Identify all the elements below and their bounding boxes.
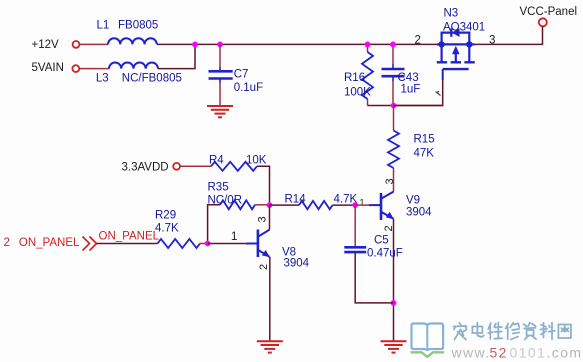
ground V8: [257, 341, 283, 352]
capacitor C5: [344, 247, 366, 252]
svg-text:47K: 47K: [414, 148, 435, 160]
wire 5VAIN to L3: [80, 68, 110, 70]
wire L3 up to rail: [158, 44, 195, 68]
label C43: [398, 72, 419, 84]
watermark url: [451, 344, 583, 360]
wire C43 bottom lead: [392, 81, 394, 106]
label R15: [414, 134, 435, 146]
pin 3 label: [489, 34, 495, 46]
label R16: [344, 72, 365, 84]
svg-text:R29: R29: [155, 209, 176, 221]
svg-text:3: 3: [384, 178, 396, 184]
svg-text:C5: C5: [374, 235, 389, 247]
transistor V8 (NPN 3904): [246, 230, 270, 258]
svg-text:L3: L3: [96, 72, 109, 84]
svg-text:V9: V9: [406, 195, 420, 207]
resistor R14: [299, 201, 333, 209]
wire R15 to V9 collector: [393, 168, 395, 192]
svg-text:3904: 3904: [406, 206, 432, 218]
wire top rail: [157, 43, 437, 45]
wire R15 top lead: [393, 106, 395, 131]
wire R16 bottom lead: [367, 99, 369, 106]
value NC/FB0805: [122, 72, 182, 84]
resistor R4: [211, 162, 257, 171]
resistor R16: [362, 52, 373, 99]
label R14: [285, 194, 307, 206]
wire C5 top lead: [354, 205, 356, 247]
connector chevron: [83, 237, 97, 251]
pin 2 label: [415, 34, 421, 46]
value 100K: [344, 87, 371, 99]
junction rail-L3: [192, 42, 198, 48]
value FB0805: [118, 20, 158, 32]
junction gate node: [391, 103, 397, 109]
watermark text 家电维修资料网: [454, 323, 571, 340]
svg-text:3.3AVDD: 3.3AVDD: [122, 161, 169, 173]
label R29: [155, 209, 176, 221]
svg-text:0101: 0101: [510, 344, 547, 360]
wire +12V to L1: [80, 43, 109, 45]
resistor R35: [220, 200, 255, 209]
net label 2 ON_PANEL: [4, 237, 81, 249]
wire C5 bottom lead: [355, 252, 393, 303]
terminal 3.3AVDD: [173, 163, 180, 170]
svg-text:3904: 3904: [284, 257, 310, 269]
wire junction to V8 base: [208, 243, 246, 245]
svg-text:L1: L1: [97, 20, 110, 32]
ground V9: [381, 341, 407, 352]
value NC/0R: [208, 194, 243, 206]
wire R35 right lead: [255, 204, 270, 206]
value 0.1uF: [234, 82, 263, 94]
net label 5VAIN: [32, 62, 64, 74]
value 47K: [414, 148, 435, 160]
junction R29/R35/V8: [205, 241, 211, 247]
value 0.47uF: [367, 248, 403, 260]
value 3904 V8: [284, 257, 310, 269]
svg-text:R16: R16: [344, 72, 365, 84]
svg-text:AO3401: AO3401: [443, 22, 485, 34]
value 4.7K: [334, 194, 358, 206]
pin 1 label V8: [231, 231, 237, 243]
wire C7 top lead: [219, 44, 221, 67]
junction R4/R35/V8: [267, 202, 273, 208]
label L3: [96, 72, 109, 84]
inductor L3: [109, 62, 158, 68]
junction rail-C7: [217, 42, 223, 48]
label L1: [97, 20, 110, 32]
svg-text:www.: www.: [451, 344, 491, 360]
wire gate lead: [394, 80, 443, 106]
svg-text:2: 2: [415, 34, 421, 46]
label N3: [444, 8, 459, 20]
svg-text:0.1uF: 0.1uF: [234, 82, 263, 94]
svg-text:4.7K: 4.7K: [155, 222, 179, 234]
svg-text:52: 52: [490, 344, 508, 360]
svg-text:R4: R4: [209, 155, 224, 167]
terminal VCC-Panel: [539, 18, 547, 26]
svg-text:+12V: +12V: [32, 39, 60, 51]
svg-text:.com: .com: [547, 344, 583, 360]
label C7: [234, 69, 249, 81]
svg-text:5VAIN: 5VAIN: [32, 62, 64, 74]
label V9: [406, 195, 420, 207]
value 1uF: [401, 84, 421, 96]
pin 1 label V9: [360, 198, 365, 208]
watermark book icon: [411, 324, 445, 357]
pin 3 label V9: [384, 178, 396, 184]
wire rail to mosfet pin2: [436, 43, 438, 45]
net label VCC-Panel: [520, 6, 578, 18]
junction C5/emitter: [391, 300, 397, 306]
wire C43 top lead: [392, 44, 394, 65]
ground C7: [207, 106, 233, 117]
resistor R15: [388, 131, 399, 169]
wire gate node: [368, 105, 443, 107]
gate pin1 marker: [436, 92, 440, 96]
resistor R29: [158, 239, 201, 248]
capacitor C43: [382, 65, 405, 82]
inductor L1: [108, 38, 157, 44]
value 4.7K R29: [155, 222, 179, 234]
wire V8 collector up: [269, 205, 271, 230]
svg-text:10K: 10K: [246, 155, 267, 167]
terminal 5VAIN: [72, 65, 79, 72]
svg-text:N3: N3: [444, 8, 459, 20]
svg-text:R15: R15: [414, 134, 435, 146]
junction C5/V9 base: [352, 202, 358, 208]
svg-text:2: 2: [258, 264, 270, 270]
wire R29 to junction: [200, 243, 208, 245]
wire V8 emitter down: [269, 257, 271, 342]
svg-text:2: 2: [4, 237, 10, 249]
svg-text:C43: C43: [398, 72, 419, 84]
wire node to R14: [270, 204, 300, 206]
wire R4 to node: [257, 166, 270, 205]
junction rail-R16: [365, 42, 371, 48]
wire mosfet to VCC-Panel: [475, 26, 543, 44]
svg-text:FB0805: FB0805: [118, 20, 158, 32]
svg-text:1: 1: [231, 231, 237, 243]
net label ON_PANEL: [99, 231, 160, 243]
junction rail-C43: [390, 42, 396, 48]
svg-text:R35: R35: [208, 182, 229, 194]
svg-text:ON_PANEL: ON_PANEL: [99, 231, 160, 243]
wire 3.3AVDD to R4: [180, 165, 211, 167]
svg-text:VCC-Panel: VCC-Panel: [520, 6, 578, 18]
wire R35 left lead: [208, 205, 220, 244]
value 3904 V9: [406, 206, 432, 218]
svg-text:ON_PANEL: ON_PANEL: [19, 237, 80, 249]
svg-text:NC/FB0805: NC/FB0805: [122, 72, 182, 84]
transistor N3 (P-MOSFET AO3401): [437, 28, 475, 80]
pin 3 label V8: [257, 216, 269, 222]
transistor V9 (NPN 3904): [369, 192, 394, 220]
label C5: [374, 235, 389, 247]
pin 2 label V9: [383, 225, 395, 231]
svg-text:3: 3: [257, 216, 269, 222]
capacitor C7: [209, 67, 233, 83]
svg-text:1uF: 1uF: [401, 84, 421, 96]
wire C7 bottom lead: [219, 83, 221, 106]
value AO3401: [443, 22, 485, 34]
label R35: [208, 182, 229, 194]
svg-text:100K: 100K: [344, 87, 371, 99]
terminal +12V: [73, 41, 80, 48]
value 10K: [246, 155, 267, 167]
svg-text:1: 1: [360, 198, 365, 208]
label R4: [209, 155, 224, 167]
label V8: [282, 247, 296, 259]
wire R14 to C5 node: [333, 204, 356, 206]
wire R16 top lead: [367, 44, 369, 52]
svg-text:C7: C7: [234, 69, 249, 81]
wire to V9 base: [355, 204, 369, 206]
wire ON_PANEL to R29: [97, 243, 158, 245]
svg-text:0.47uF: 0.47uF: [367, 248, 403, 260]
net label +12V: [32, 39, 60, 51]
net label 3.3AVDD: [122, 161, 169, 173]
wire V9 emitter down: [393, 219, 395, 341]
pin 2 label V8: [258, 264, 270, 270]
